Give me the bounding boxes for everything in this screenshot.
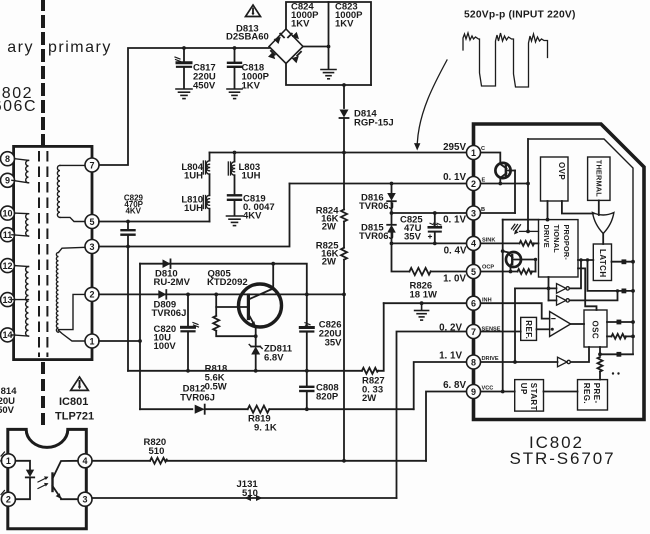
svg-text:PROPOR-: PROPOR- xyxy=(562,225,571,261)
capacitor C829 xyxy=(122,220,135,371)
wire: bridge AC feed, y48 xyxy=(100,48,270,165)
svg-text:6. 8V: 6. 8V xyxy=(443,380,466,391)
transformer pin 9 xyxy=(1,173,15,187)
diode D816 xyxy=(387,184,396,214)
IC802 inner boundary line xyxy=(528,139,633,354)
svg-text:520Vp-p (INPUT 220V): 520Vp-p (INPUT 220V) xyxy=(464,10,576,21)
OVP stubs xyxy=(547,201,549,220)
pin9 internal wire xyxy=(481,391,515,393)
svg-text:2W: 2W xyxy=(322,257,336,268)
inv1 wiring xyxy=(515,287,557,289)
resistor to PRE-REG xyxy=(598,357,603,380)
inductor L810 xyxy=(203,195,209,221)
OSC bottom to drive inverter xyxy=(570,347,589,362)
opto IC801 box xyxy=(8,429,87,528)
IC pin 2 xyxy=(467,177,481,191)
latch row to pad xyxy=(612,261,634,263)
pin5 internal wire + resistor xyxy=(481,269,536,274)
svg-text:2W: 2W xyxy=(362,393,376,404)
opto light arrows xyxy=(38,476,49,488)
wire PROPOR to OSC top xyxy=(578,268,597,310)
OSC block xyxy=(584,310,607,347)
diode D814 xyxy=(340,85,349,153)
svg-text:12: 12 xyxy=(2,261,12,271)
pin2 IC row xyxy=(290,183,467,185)
IC802 outline xyxy=(474,124,645,420)
resistor R826 + pin5 row xyxy=(392,243,467,275)
IC pin 8 xyxy=(467,355,481,369)
diode D809 xyxy=(158,290,166,299)
opto pin 4 xyxy=(78,454,92,468)
wire: D810 top wire y263.7 xyxy=(140,264,307,295)
dashed isolation line (below transformer) xyxy=(41,364,45,426)
resistor R818 xyxy=(213,293,256,337)
295V rail xyxy=(210,152,467,154)
svg-text:9: 9 xyxy=(5,176,10,186)
svg-text:primary: primary xyxy=(48,39,112,56)
inv2 wiring xyxy=(549,299,557,301)
svg-text:820P: 820P xyxy=(316,392,339,403)
riser: pin1 to D810 wire xyxy=(139,264,141,410)
svg-text:35V: 35V xyxy=(404,232,422,243)
wire: bridge right corner to ground lead xyxy=(303,46,329,48)
base riser to pin3 xyxy=(514,171,516,214)
OSC resistor row B xyxy=(607,334,635,339)
svg-text:7: 7 xyxy=(471,327,476,337)
label R819 xyxy=(248,414,277,434)
scan artifact dots xyxy=(612,372,614,374)
label Q805 xyxy=(207,269,248,289)
capacitor C826 xyxy=(300,293,313,373)
spark arrow symbol xyxy=(512,224,539,234)
label C818 xyxy=(242,63,270,92)
label D816 xyxy=(359,193,394,213)
comparator out to OSC xyxy=(571,323,584,325)
IC pin 7 xyxy=(467,325,481,339)
transformer T802 outline xyxy=(14,146,92,359)
drive inverter xyxy=(558,357,571,367)
wire: pin2 row (to R825 foot) xyxy=(99,293,344,295)
IC pin 9 xyxy=(467,385,481,399)
START UP block xyxy=(515,380,544,412)
svg-text:REF.: REF. xyxy=(524,320,533,339)
svg-text:OCP: OCP xyxy=(482,265,494,271)
label D813 xyxy=(226,24,269,43)
capacitor C808 xyxy=(300,371,313,411)
svg-text:RU-2MV: RU-2MV xyxy=(154,277,191,288)
jumper J131 xyxy=(245,495,263,501)
ground (C817) xyxy=(176,89,192,99)
capacitor C818 xyxy=(228,46,241,88)
curved arrow to 295V rail xyxy=(417,60,447,143)
pin3 internal wire xyxy=(481,212,516,214)
label C823 xyxy=(335,2,363,30)
label L804 xyxy=(181,162,203,182)
opto pin 1 xyxy=(1,454,15,468)
svg-text:0. 1V: 0. 1V xyxy=(443,172,466,183)
svg-text:TIONAL: TIONAL xyxy=(552,225,561,254)
resistor R820 xyxy=(150,458,167,464)
label C826 xyxy=(319,320,342,349)
ground (bridge) xyxy=(321,70,336,79)
svg-text:THERMAL: THERMAL xyxy=(594,160,603,197)
svg-text:100V: 100V xyxy=(154,341,177,352)
svg-text:DRIVE: DRIVE xyxy=(482,356,499,362)
label D809 xyxy=(152,300,187,320)
inductor L803 xyxy=(228,153,234,195)
svg-text:1UH: 1UH xyxy=(184,171,203,182)
label C829 xyxy=(124,194,144,216)
svg-text:PRE-: PRE- xyxy=(592,383,601,404)
transformer pin 8 xyxy=(1,152,15,166)
svg-text:1KV: 1KV xyxy=(242,81,261,92)
svg-text:1UH: 1UH xyxy=(242,171,261,182)
label R825 xyxy=(316,241,339,268)
svg-text:RGP-15J: RGP-15J xyxy=(354,118,394,129)
wire PROPOR to LATCH xyxy=(578,259,593,261)
THERMAL block xyxy=(588,157,610,200)
capacitor C817 xyxy=(175,46,191,88)
IC pin 3 xyxy=(467,206,481,220)
ground (INH) xyxy=(415,303,429,320)
winding 10-11 xyxy=(12,213,29,236)
OR gate xyxy=(593,213,614,234)
svg-text:2: 2 xyxy=(471,179,476,189)
opto LED xyxy=(15,461,34,499)
svg-text:1: 1 xyxy=(471,148,476,158)
label J131 xyxy=(237,479,259,499)
transformer pin 14 xyxy=(1,328,15,342)
transistor Q805 xyxy=(216,262,281,327)
svg-text:3: 3 xyxy=(89,242,94,252)
svg-text:9: 9 xyxy=(471,387,476,397)
label R818 xyxy=(205,364,228,393)
svg-text:606C: 606C xyxy=(0,98,37,115)
svg-text:510: 510 xyxy=(149,446,165,457)
svg-text:VCC: VCC xyxy=(482,386,494,392)
zener ZD811 xyxy=(249,345,262,373)
svg-text:6.8V: 6.8V xyxy=(264,353,284,364)
svg-text:8: 8 xyxy=(5,154,10,164)
warning triangle (D813) xyxy=(246,5,261,17)
label L810 xyxy=(181,195,203,215)
svg-text:5: 5 xyxy=(471,267,476,277)
comparator xyxy=(550,312,571,337)
svg-text:LATCH: LATCH xyxy=(598,249,607,278)
OVP block xyxy=(541,157,569,201)
svg-text:13: 13 xyxy=(2,295,12,305)
resistor R825 xyxy=(341,248,347,297)
svg-text:0. 1V: 0. 1V xyxy=(443,215,466,226)
svg-text:5: 5 xyxy=(89,217,94,227)
svg-text:TVR06J: TVR06J xyxy=(359,231,394,242)
svg-text:1KV: 1KV xyxy=(335,19,354,30)
svg-text:1. 0V: 1. 0V xyxy=(443,274,466,285)
label ZD811 xyxy=(264,344,293,364)
riser pin3base line to pin8 row xyxy=(514,288,516,362)
svg-text:TVR06J: TVR06J xyxy=(152,308,187,319)
opto input stubs xyxy=(1,452,5,495)
svg-text:0. 2V: 0. 2V xyxy=(439,323,462,334)
svg-text:0. 4V: 0. 4V xyxy=(444,246,467,257)
label C825 xyxy=(400,215,423,243)
drive block top wire xyxy=(503,219,539,221)
svg-text:2W: 2W xyxy=(322,222,336,233)
transformer pin 2 xyxy=(85,287,99,301)
vertical from inner line corner xyxy=(527,139,529,231)
svg-text:4: 4 xyxy=(82,456,87,466)
winding 7-5 (primary) xyxy=(57,165,85,221)
wire: Q805 emitter down xyxy=(255,327,257,345)
wire: C823/C824 middle lead with ground xyxy=(328,2,330,69)
svg-text:INH: INH xyxy=(482,298,492,304)
transformer pin 1 xyxy=(85,334,99,348)
label R824 xyxy=(316,206,339,233)
label C820 xyxy=(154,324,177,352)
ground (C819) xyxy=(227,216,243,226)
ground (C818) xyxy=(227,89,242,99)
wire: pin3 row to riser xyxy=(99,184,290,247)
svg-text:1: 1 xyxy=(89,336,94,346)
label L803 xyxy=(239,162,261,182)
resistor R824 xyxy=(341,153,347,248)
OSC pad row A xyxy=(607,321,633,323)
diode D812 + row xyxy=(140,408,192,410)
svg-text:TVR06J: TVR06J xyxy=(180,393,215,404)
wire: pin1 row xyxy=(99,340,140,342)
svg-text:START: START xyxy=(529,383,538,411)
svg-text:7: 7 xyxy=(89,160,94,170)
J131 row xyxy=(92,497,396,499)
opto pin 3 xyxy=(78,492,92,506)
svg-text:2: 2 xyxy=(89,290,94,300)
svg-text:11: 11 xyxy=(3,230,13,240)
svg-text:6: 6 xyxy=(471,299,476,309)
transformer pin 13 xyxy=(1,293,15,307)
label D814 xyxy=(354,109,394,129)
label D812 xyxy=(180,384,215,404)
svg-text:450V: 450V xyxy=(193,81,216,92)
label C819 xyxy=(243,194,275,222)
label R827 xyxy=(362,376,385,405)
svg-text:1. 1V: 1. 1V xyxy=(439,351,462,362)
svg-text:D2SBA60: D2SBA60 xyxy=(226,32,269,43)
svg-text:DRIVE: DRIVE xyxy=(542,225,551,248)
opto pin 2 xyxy=(1,492,15,506)
pin8 internal wire xyxy=(481,361,558,363)
waveform drawing xyxy=(463,33,548,87)
OSC bottom row C xyxy=(600,347,633,354)
svg-text:KTD2092: KTD2092 xyxy=(207,277,248,288)
svg-text:TVR06J: TVR06J xyxy=(359,201,394,212)
THERMAL stub xyxy=(598,200,600,215)
svg-text:OSC: OSC xyxy=(591,321,600,340)
dashed isolation line (top, secondary/primary split) xyxy=(41,0,45,146)
transformer pin 11 xyxy=(1,228,15,242)
inverter 2 xyxy=(557,296,570,306)
svg-text:4: 4 xyxy=(471,239,476,249)
capacitor C825 xyxy=(429,213,442,243)
bottom rail y370.8 xyxy=(128,370,362,372)
svg-text:295V: 295V xyxy=(443,142,466,153)
IC pin 5 xyxy=(467,265,481,279)
label C808 xyxy=(316,383,339,403)
transformer pin 12 xyxy=(1,259,15,273)
svg-text:50V: 50V xyxy=(0,405,15,416)
label C817 xyxy=(193,63,216,92)
wire: bridge - bottom rail y85 xyxy=(286,64,371,86)
svg-text:3: 3 xyxy=(82,495,87,505)
svg-text:0.5W: 0.5W xyxy=(205,382,227,393)
pin2 internal wire xyxy=(481,183,529,185)
bridge rectifier D813 xyxy=(268,29,303,64)
IC pin 6 xyxy=(467,296,481,310)
internal bus down to pin9 xyxy=(502,220,504,392)
svg-text:18 1W: 18 1W xyxy=(410,290,437,301)
pin name labels xyxy=(481,146,501,392)
row2 to pad xyxy=(588,260,634,291)
LATCH block xyxy=(593,244,611,281)
START UP to PRE-REG xyxy=(544,391,578,393)
svg-text:ary: ary xyxy=(7,39,34,56)
PROPORTIONAL DRIVE block xyxy=(539,220,579,277)
pin6 INH row xyxy=(384,302,466,304)
pin8 DRIVE row + riser to D812 row xyxy=(414,362,466,409)
inductor L804 xyxy=(203,153,209,196)
svg-text:14: 14 xyxy=(2,330,12,340)
label C814 (cut) xyxy=(0,386,17,416)
feedback line x344 down to R820 row xyxy=(343,294,345,460)
pin1 internal wire to power transistor xyxy=(481,153,501,164)
svg-text:8: 8 xyxy=(471,357,476,367)
label C824 xyxy=(291,2,319,30)
svg-text:SENSE: SENSE xyxy=(482,327,501,333)
svg-text:1: 1 xyxy=(6,456,11,466)
transformer pin 5 xyxy=(85,215,99,229)
opto phototransistor xyxy=(53,461,78,499)
second internal transistor xyxy=(503,251,538,271)
diode D815 xyxy=(387,213,396,243)
svg-text:STR-S6707: STR-S6707 xyxy=(510,449,616,468)
svg-text:IC801: IC801 xyxy=(59,396,88,408)
transformer pin 3 xyxy=(85,240,99,254)
pin6 internal wire to comparator xyxy=(481,303,550,318)
svg-text:3: 3 xyxy=(471,208,476,218)
REF block xyxy=(521,317,537,340)
svg-text:C: C xyxy=(481,146,485,152)
pin3 IC row xyxy=(392,212,467,214)
svg-text:1KV: 1KV xyxy=(291,19,310,30)
svg-text:510: 510 xyxy=(242,488,258,499)
internal power transistor xyxy=(495,163,515,184)
svg-text:4KV: 4KV xyxy=(243,211,262,222)
REF to comparator xyxy=(537,328,550,330)
node: bridge + top to C824 lead xyxy=(286,2,371,85)
inverter 1 xyxy=(557,284,570,294)
svg-text:SINK: SINK xyxy=(482,238,495,244)
warning triangle (IC801) xyxy=(71,377,89,390)
svg-text:REG.: REG. xyxy=(582,383,591,404)
resistor R827 xyxy=(362,368,378,374)
svg-text:9. 1K: 9. 1K xyxy=(254,423,277,434)
label R820 xyxy=(144,437,167,457)
winding 8-9 xyxy=(12,159,29,183)
svg-text:OVP: OVP xyxy=(557,162,566,180)
winding 12-13-14 xyxy=(12,266,29,337)
label R826 xyxy=(410,281,437,301)
svg-text:UP: UP xyxy=(519,383,528,395)
svg-text:TLP721: TLP721 xyxy=(55,410,94,422)
svg-text:E: E xyxy=(482,178,486,184)
diode D810 xyxy=(162,259,171,268)
IC pin 4 xyxy=(467,236,481,250)
label D810 xyxy=(154,269,191,289)
wire: pin5 row to L810 xyxy=(99,221,210,223)
capacitor C819 xyxy=(228,195,241,215)
svg-text:35V: 35V xyxy=(325,338,343,349)
label D815 xyxy=(359,223,394,243)
IC pin 1 xyxy=(467,146,481,160)
svg-text:2: 2 xyxy=(6,495,11,505)
transformer pin 7 xyxy=(85,158,99,172)
svg-text:B: B xyxy=(481,207,485,213)
pin7 SENSE row + riser to J131 row xyxy=(397,332,467,499)
pin4 IC row xyxy=(392,242,467,244)
winding 3-2-1 xyxy=(56,247,85,341)
OR output to latch xyxy=(602,234,604,245)
pin9 VCC row + riser to R820 row xyxy=(426,392,466,461)
svg-text:10: 10 xyxy=(2,208,12,218)
svg-text:4KV: 4KV xyxy=(125,207,141,216)
R820 row xyxy=(92,460,150,462)
capacitor C820 xyxy=(182,293,199,373)
svg-text:1UH: 1UH xyxy=(184,203,203,214)
transformer pin 10 xyxy=(1,206,15,220)
resistor R819 xyxy=(205,408,248,410)
PRE-REG block xyxy=(578,380,608,410)
transformer core (dashed) xyxy=(38,152,40,356)
pin7 internal wire into REF xyxy=(481,331,521,333)
pin4 internal wire + resistor xyxy=(481,241,539,246)
